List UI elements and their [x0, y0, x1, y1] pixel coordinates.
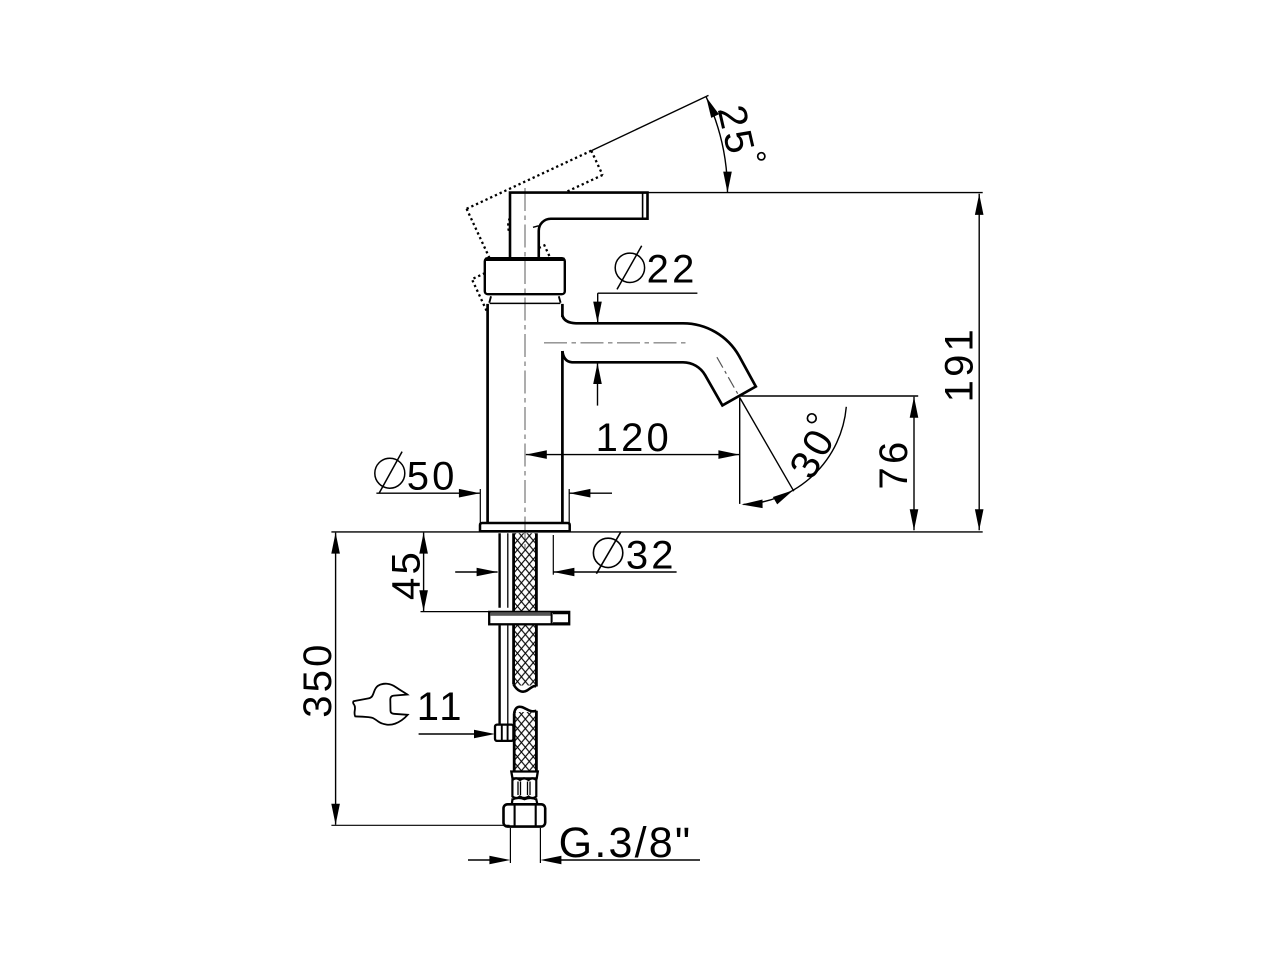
dim 76: line: [913, 397, 915, 531]
dim 45: line: [423, 533, 425, 612]
dim 350: bottom extension line: [331, 824, 509, 826]
dim G38: left arrow: [468, 859, 490, 861]
leader 11: line and arrowhead: [419, 733, 480, 735]
dim 45: text: [384, 549, 428, 600]
dim 191: line: [978, 194, 980, 531]
braided hose upper break wave: [514, 685, 537, 692]
hose crimp collar inner lines: [518, 782, 530, 796]
stud end nut facets: [502, 725, 508, 741]
dim G38: right extension line: [539, 828, 541, 863]
svg-text:120: 120: [596, 416, 672, 460]
dim 25deg: inclined thin line: [591, 95, 708, 150]
threaded stud rod left edge (below deck): [498, 533, 500, 723]
dim dia50: diameter symbol slash: [379, 452, 402, 494]
svg-text:11: 11: [417, 685, 465, 729]
dim dia32: diameter symbol circle: [593, 538, 622, 567]
hose flare: [512, 798, 538, 804]
dim 191: top arrowhead: [975, 194, 984, 215]
dim dia50: right extension line: [568, 489, 570, 523]
mounting washer divider: [551, 612, 553, 624]
braided hose lower break wave: [514, 707, 536, 714]
dim dia22: diameter symbol slash: [617, 246, 642, 290]
dim G38: left extension line: [509, 828, 511, 863]
handle cap top edge (bold): [485, 258, 565, 261]
dim dia32: right extension line: [552, 535, 554, 575]
centerline: spout tip axis (60deg): [717, 357, 739, 396]
dim 76: text: [872, 439, 916, 490]
phantom: rotated handle bottom edge partial: [566, 175, 603, 192]
dim dia22: upper vertical with arrow: [597, 293, 599, 322]
dim 30deg: arrowhead at vertical: [742, 500, 763, 509]
hose ferrule: [511, 772, 538, 779]
dim 30deg: vertical construction line: [739, 398, 741, 504]
dim dia32: right arrow and tail: [553, 571, 676, 573]
body right edge lower segment: [561, 351, 564, 523]
dim 120: line: [526, 454, 740, 456]
svg-text:76: 76: [872, 439, 916, 490]
handle lever small tick: [533, 226, 539, 228]
braided hose lower section edges: [514, 711, 536, 771]
dim dia50: left extension line: [479, 489, 481, 523]
wire: top reference horizontal line at handle level: [648, 192, 983, 194]
stud end nut (11mm): [495, 725, 513, 741]
dim 76: extension line from spout tip: [740, 395, 919, 397]
wire: deck / counter line: [331, 531, 982, 533]
hose hex nut facets: [515, 805, 536, 825]
dim dia22: lower vertical with arrow: [597, 363, 599, 406]
dim 350: top arrowhead: [331, 533, 340, 554]
hose crimp collar: [512, 778, 536, 798]
braided hose upper section crosshatch: [515, 533, 535, 685]
dim 350: line: [335, 533, 337, 825]
dim dia32: diameter symbol slash: [596, 532, 620, 574]
dim 191: bottom arrowhead: [975, 509, 984, 530]
phantom: rotated cap top-right corner: [539, 245, 551, 258]
dim dia32: left arrow: [455, 571, 497, 573]
hose hex nut G3/8: [504, 804, 546, 826]
dim 30deg: arrowhead at diagonal: [773, 490, 793, 504]
handle lever (solid): [510, 193, 648, 259]
dim 76: bottom arrowhead: [910, 509, 919, 530]
dim 25deg: text: [709, 101, 763, 160]
centerline: main vertical faucet axis: [524, 188, 526, 548]
svg-text:50: 50: [407, 454, 458, 498]
neck ring right slant: [559, 296, 561, 302]
hose flare wave: [512, 798, 537, 800]
dim dia50: diameter symbol circle: [375, 458, 405, 488]
svg-text:G.3/8": G.3/8": [559, 819, 693, 867]
dim dia50: right arrow and tail: [569, 492, 612, 494]
dim 76: top arrowhead: [910, 397, 919, 418]
dim 45: bottom arrowhead: [419, 590, 428, 611]
phantom: rotated cap top-left fragment: [472, 273, 487, 312]
wrench symbol: [353, 684, 408, 725]
dim 350: text: [296, 641, 340, 717]
svg-text:32: 32: [626, 533, 677, 577]
base flange: [480, 523, 570, 531]
dim 25deg: upper arrowhead: [706, 97, 719, 118]
dim 45: top arrowhead: [419, 533, 428, 554]
spout outline: [562, 316, 755, 406]
dim 120: left arrowhead: [526, 450, 547, 459]
braided hose upper section edges: [514, 533, 537, 686]
neck ring left slant: [489, 296, 491, 302]
neck ring bottom edge: [490, 302, 561, 304]
dim 45: bottom extension line: [421, 611, 491, 613]
mounting washer plate (covers hose+rod): [489, 612, 569, 624]
svg-text:22: 22: [647, 247, 698, 291]
threaded stud rod right edge: [507, 533, 509, 723]
braided hose lower section crosshatch: [515, 712, 535, 771]
mounting washer gasket band (gray): [490, 612, 551, 616]
mounting washer right block lines: [553, 613, 569, 623]
svg-text:191: 191: [937, 326, 981, 402]
dim 25deg: lower arrowhead: [723, 172, 732, 193]
dim dia50: underline and left arrow: [376, 492, 480, 494]
svg-text:350: 350: [296, 641, 340, 717]
dim 30deg: arc: [743, 407, 846, 505]
body right edge upper segment: [561, 304, 564, 317]
dim 30deg: diagonal construction line: [740, 398, 794, 492]
centerline: spout horizontal axis: [544, 342, 690, 344]
body left edge: [486, 304, 489, 523]
dim dia22: leader underline: [598, 292, 698, 294]
dim 350: bottom arrowhead: [331, 804, 340, 825]
phantom: rotated fillet: [508, 218, 509, 232]
dim 120: right arrowhead: [718, 450, 739, 459]
dim 30deg: text: [781, 420, 844, 486]
phantom: rotated handle top edge: [467, 151, 592, 209]
phantom: rotated handle end: [591, 151, 602, 175]
phantom: rotated stem left edge: [467, 209, 490, 258]
dim dia22: diameter symbol circle: [615, 253, 644, 282]
handle cap block: [485, 258, 565, 294]
dim G38: right arrow and tail: [561, 859, 700, 861]
dim 191: text: [937, 326, 981, 402]
handle lever end inner edge: [642, 193, 644, 219]
dim 25deg: arc: [706, 97, 727, 193]
svg-text:45: 45: [384, 549, 428, 600]
